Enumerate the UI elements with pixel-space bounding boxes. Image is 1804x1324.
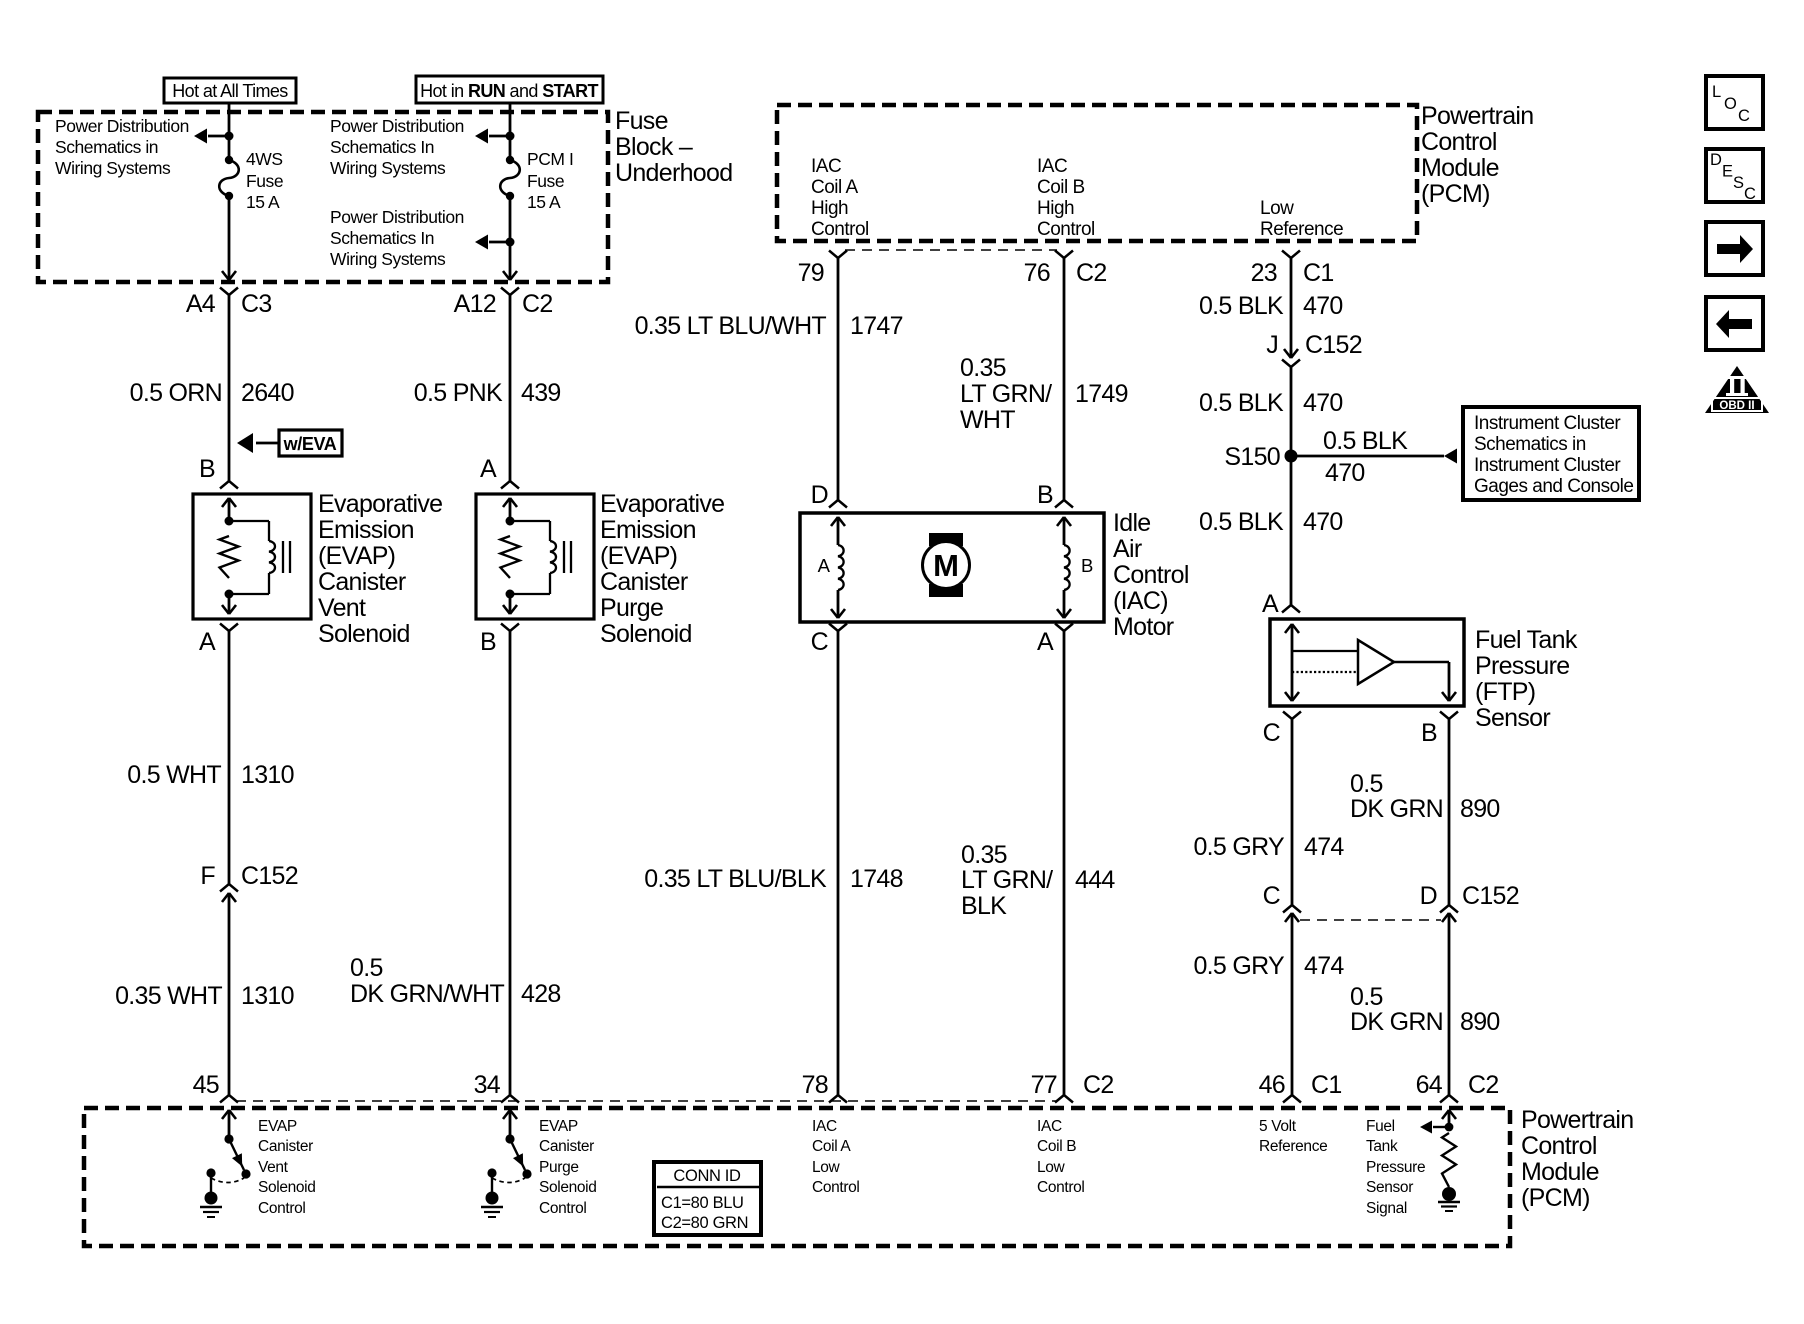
- svg-text:(EVAP): (EVAP): [600, 542, 677, 570]
- svg-text:0.5: 0.5: [1350, 770, 1383, 798]
- svg-text:F: F: [200, 862, 215, 890]
- svg-text:0.5 ORN: 0.5 ORN: [130, 379, 222, 407]
- svg-text:Instrument Cluster: Instrument Cluster: [1474, 413, 1621, 434]
- svg-text:79: 79: [798, 259, 824, 287]
- connector fork pin 23: [1282, 251, 1300, 259]
- label: 0.5 BLK | 470 (first): [1199, 292, 1343, 320]
- connector fork pin 79: [829, 251, 847, 259]
- wire: 0.35 LT GRN/WHT 1749 segment: [1063, 258, 1066, 500]
- svg-text:34: 34: [474, 1071, 501, 1099]
- svg-text:Hot at All Times: Hot at All Times: [172, 81, 288, 101]
- label: IAC Coil A Low Control: [812, 1118, 860, 1196]
- svg-text:IAC: IAC: [812, 1118, 837, 1135]
- off-page arrow to Power Distribution (upper, PCM I fuse): [475, 129, 515, 144]
- svg-text:A4: A4: [186, 290, 216, 318]
- label: 64 | C2: [1416, 1071, 1499, 1099]
- label: A (EVAP purge pin A): [480, 455, 497, 483]
- label: 5 Volt Reference: [1259, 1118, 1327, 1155]
- svg-text:Pressure: Pressure: [1475, 652, 1569, 680]
- svg-text:Fuel Tank: Fuel Tank: [1475, 626, 1578, 654]
- connector chevron FTP pin A: [1282, 605, 1300, 613]
- CONN ID table box: [654, 1162, 761, 1235]
- svg-text:Solenoid: Solenoid: [318, 620, 410, 648]
- w/EVA tag box with arrow: [237, 430, 342, 456]
- svg-text:OBD II: OBD II: [1719, 400, 1754, 412]
- wire: 0.5 DK GRN 890 segment (C152 to pin 64): [1448, 921, 1451, 1095]
- svg-text:0.35 LT BLU/BLK: 0.35 LT BLU/BLK: [644, 865, 827, 893]
- svg-text:439: 439: [521, 379, 561, 407]
- svg-text:Fuse: Fuse: [527, 171, 564, 191]
- svg-text:A12: A12: [454, 290, 496, 318]
- svg-text:Air: Air: [1113, 535, 1142, 563]
- svg-text:High: High: [1037, 198, 1074, 219]
- svg-text:Canister: Canister: [258, 1138, 313, 1155]
- svg-text:M: M: [933, 548, 959, 583]
- label: IAC Coil A High Control: [811, 156, 869, 240]
- svg-text:Schematics In: Schematics In: [330, 228, 434, 248]
- svg-text:B: B: [1081, 555, 1093, 576]
- label: 0.35 LT GRN/ BLK | 444: [961, 841, 1115, 920]
- svg-text:0.5 GRY: 0.5 GRY: [1193, 833, 1285, 861]
- svg-text:IAC: IAC: [1037, 1118, 1062, 1135]
- svg-text:EVAP: EVAP: [539, 1118, 578, 1135]
- svg-text:C2: C2: [1076, 259, 1107, 287]
- label: Powertrain Control Module (PCM) bottom right: [1521, 1106, 1634, 1212]
- wire: 0.35 LT BLU/BLK 1748 segment: [837, 631, 840, 1095]
- svg-text:(PCM): (PCM): [1521, 1184, 1590, 1212]
- svg-text:Control: Control: [812, 1179, 860, 1196]
- wire: 0.5 BLK 470 branch to instrument cluster: [1291, 427, 1457, 487]
- PCM dashed outline box (bottom): [84, 1108, 1510, 1246]
- svg-text:0.5 BLK: 0.5 BLK: [1199, 508, 1284, 536]
- icon: OBD II triangle: [1705, 366, 1769, 413]
- svg-text:DK GRN: DK GRN: [1350, 1008, 1443, 1036]
- svg-text:0.5 WHT: 0.5 WHT: [127, 761, 221, 789]
- power label box: Hot at All Times: [164, 78, 296, 103]
- EVAP purge solenoid coil branch: [510, 521, 556, 594]
- label: B (IAC pin B): [1037, 481, 1053, 509]
- svg-text:444: 444: [1075, 866, 1115, 894]
- svg-text:S: S: [1733, 174, 1744, 192]
- svg-text:CONN ID: CONN ID: [673, 1167, 741, 1185]
- label: 0.5 BLK | 470 (second): [1199, 389, 1343, 417]
- label: 79: [798, 259, 824, 287]
- svg-text:78: 78: [802, 1071, 828, 1099]
- svg-text:Purge: Purge: [539, 1159, 579, 1176]
- svg-text:Low: Low: [1260, 198, 1294, 219]
- svg-text:Low: Low: [1037, 1159, 1066, 1176]
- PCM internal FTP signal pull-up and ground (pin 64): [1420, 1110, 1460, 1211]
- svg-text:(EVAP): (EVAP): [318, 542, 395, 570]
- connector chevron at EVAP purge pin A: [501, 481, 519, 489]
- connector fork pin 45: [220, 1095, 238, 1103]
- label: 34: [474, 1071, 501, 1099]
- svg-text:EVAP: EVAP: [258, 1118, 297, 1135]
- svg-text:1749: 1749: [1075, 380, 1128, 408]
- label: A (IAC pin A): [1037, 628, 1054, 656]
- fuse F1 4WS 15A symbol: [219, 156, 239, 200]
- EVAP canister vent solenoid box: [193, 494, 311, 619]
- svg-text:PCM I: PCM I: [527, 149, 573, 169]
- svg-text:Module: Module: [1421, 154, 1499, 182]
- svg-text:23: 23: [1251, 259, 1277, 287]
- wire: battery feed from Hot at All Times to 4WS fuse: [228, 103, 231, 160]
- svg-text:C2=80 GRN: C2=80 GRN: [661, 1214, 748, 1232]
- label: IAC Coil B High Control: [1037, 156, 1095, 240]
- svg-text:C2: C2: [522, 290, 553, 318]
- svg-text:Solenoid: Solenoid: [600, 620, 692, 648]
- icon: LOC box: [1706, 76, 1763, 129]
- svg-text:Control: Control: [1521, 1132, 1597, 1160]
- label: EVAP Canister Vent Solenoid Control: [258, 1118, 316, 1217]
- svg-text:Power Distribution: Power Distribution: [330, 207, 464, 227]
- label: 0.5 DK GRN/WHT | 428: [350, 954, 561, 1008]
- label: 0.35 WHT | 1310: [115, 982, 294, 1010]
- EVAP canister purge solenoid box: [476, 494, 594, 619]
- label: B (EVAP vent pin B): [199, 455, 215, 483]
- off-page arrow to Power Distribution (left of 4WS fuse): [194, 129, 234, 144]
- svg-text:A: A: [480, 455, 497, 483]
- svg-text:470: 470: [1325, 459, 1365, 487]
- svg-text:474: 474: [1304, 833, 1344, 861]
- FTP output line to pin B: [1394, 662, 1456, 701]
- label: 4WS Fuse 15 A: [246, 149, 283, 212]
- svg-text:B: B: [1421, 719, 1437, 747]
- svg-text:Schematics in: Schematics in: [55, 137, 158, 157]
- EVAP purge solenoid resistor: [501, 536, 520, 578]
- svg-text:470: 470: [1303, 389, 1343, 417]
- wire: 0.5 ORN 2640 segment: [228, 295, 231, 481]
- label: J | C152: [1266, 331, 1362, 359]
- connector fork pin 64: [1440, 1095, 1458, 1103]
- svg-text:0.5 BLK: 0.5 BLK: [1199, 389, 1284, 417]
- power label box: Hot in RUN and START: [416, 76, 603, 103]
- connector A4 C3 fork: [220, 288, 238, 296]
- svg-text:Control: Control: [1113, 561, 1189, 589]
- label: B (IAC internal coil B): [1081, 555, 1093, 576]
- svg-text:BLK: BLK: [961, 892, 1007, 920]
- svg-text:D: D: [811, 481, 828, 509]
- label: Low Reference: [1260, 198, 1343, 240]
- svg-text:D: D: [1710, 151, 1722, 169]
- connector chevron at EVAP vent pin B: [220, 481, 238, 489]
- wire: 0.35 LT BLU/WHT 1747 segment: [837, 258, 840, 500]
- wire: 0.5 BLK 470 segment (pin 23 to C152 J): [1290, 258, 1293, 358]
- wire: 0.5 GRY 474 segment (FTP C to C152): [1291, 719, 1294, 905]
- label: Fuel Tank Pressure (FTP) Sensor: [1475, 626, 1578, 732]
- connector fork pin 76: [1055, 251, 1073, 259]
- svg-text:Tank: Tank: [1366, 1138, 1398, 1155]
- label: A (EVAP vent pin A): [199, 628, 216, 656]
- svg-text:428: 428: [521, 980, 561, 1008]
- svg-text:J: J: [1266, 331, 1278, 359]
- svg-text:IAC: IAC: [811, 156, 841, 177]
- svg-text:Power Distribution: Power Distribution: [55, 116, 189, 136]
- arrow into fuse block box bottom (W1): [222, 271, 236, 280]
- in-line connector C152 at C: [1283, 905, 1301, 922]
- svg-text:Module: Module: [1521, 1158, 1599, 1186]
- label: 0.5 DK GRN | 890 (upper): [1350, 770, 1500, 823]
- svg-text:Gages and Console: Gages and Console: [1474, 476, 1633, 497]
- svg-text:Underhood: Underhood: [615, 159, 732, 187]
- connector fork at EVAP vent pin A: [220, 624, 238, 632]
- arrow into fuse block box bottom (W2): [503, 271, 517, 280]
- svg-text:Powertrain: Powertrain: [1421, 102, 1534, 130]
- label: Fuse Block - Underhood: [615, 107, 732, 187]
- svg-text:64: 64: [1416, 1071, 1443, 1099]
- label: B (FTP pin B): [1421, 719, 1437, 747]
- svg-text:Wiring Systems: Wiring Systems: [330, 249, 446, 269]
- label: PCM I Fuse 15 A: [527, 149, 573, 212]
- svg-text:Coil B: Coil B: [1037, 1138, 1076, 1155]
- wire: 0.5 BLK 470 segment (S150 to FTP): [1290, 456, 1293, 605]
- in-line connector C152 at J: [1282, 349, 1300, 367]
- svg-text:Evaporative: Evaporative: [600, 490, 724, 518]
- in-line connector C152 at F: [220, 884, 238, 902]
- connector fork IAC pin A: [1055, 624, 1073, 632]
- svg-text:474: 474: [1304, 952, 1344, 980]
- svg-text:0.35: 0.35: [960, 354, 1006, 382]
- svg-text:Coil B: Coil B: [1037, 177, 1085, 198]
- svg-text:C2: C2: [1083, 1071, 1114, 1099]
- svg-text:L: L: [1712, 83, 1721, 101]
- connector chevron IAC pin B: [1055, 500, 1073, 508]
- label: 0.5 GRY | 474 (upper): [1193, 833, 1344, 861]
- label: B (EVAP purge pin B): [480, 628, 496, 656]
- svg-text:45: 45: [193, 1071, 219, 1099]
- icon: DESC box: [1706, 149, 1763, 203]
- svg-text:0.35 LT BLU/WHT: 0.35 LT BLU/WHT: [635, 312, 827, 340]
- svg-text:C1: C1: [1311, 1071, 1342, 1099]
- fuse block - underhood dashed outline box: [38, 112, 608, 282]
- in-line connector C152 at D: [1440, 905, 1458, 922]
- EVAP purge solenoid internal wire with arrows: [503, 498, 517, 614]
- svg-text:Reference: Reference: [1260, 219, 1343, 240]
- label: 77 | C2: [1031, 1071, 1114, 1099]
- svg-text:5 Volt: 5 Volt: [1259, 1118, 1297, 1135]
- svg-text:IAC: IAC: [1037, 156, 1067, 177]
- EVAP vent solenoid coil branch: [229, 521, 275, 594]
- FTP internal left wire with arrows: [1285, 624, 1299, 701]
- svg-text:890: 890: [1460, 795, 1500, 823]
- svg-text:C: C: [1263, 882, 1281, 910]
- wire: 0.5 WHT 1310 segment: [228, 631, 231, 884]
- connector fork FTP pin C: [1283, 712, 1301, 720]
- svg-text:B: B: [1037, 481, 1053, 509]
- svg-text:C2: C2: [1468, 1071, 1499, 1099]
- label: C (IAC pin C): [811, 628, 829, 656]
- svg-text:S150: S150: [1224, 443, 1280, 471]
- label: Evaporative Emission (EVAP) Canister Vent Solenoid: [318, 490, 442, 648]
- C2 connector fine dashed line (top): [845, 249, 1057, 251]
- svg-text:Purge: Purge: [600, 594, 663, 622]
- IAC motor symbol M with brushes: [923, 533, 970, 597]
- FTP internal input line to amplifier: [1292, 650, 1358, 652]
- label: F | C152: [200, 862, 298, 890]
- svg-text:470: 470: [1303, 508, 1343, 536]
- label: IAC Coil B Low Control: [1037, 1118, 1085, 1196]
- svg-text:C1: C1: [1303, 259, 1334, 287]
- svg-text:Sensor: Sensor: [1366, 1179, 1413, 1196]
- label: 46 | C1: [1259, 1071, 1342, 1099]
- svg-text:C152: C152: [241, 862, 298, 890]
- svg-text:1310: 1310: [241, 982, 294, 1010]
- svg-text:High: High: [811, 198, 848, 219]
- svg-text:A: A: [1037, 628, 1054, 656]
- svg-text:(IAC): (IAC): [1113, 587, 1168, 615]
- svg-text:0.35: 0.35: [961, 841, 1007, 869]
- label: C | C152 crossing: [1263, 882, 1281, 910]
- splice S150: [1224, 443, 1297, 471]
- svg-text:Control: Control: [1421, 128, 1497, 156]
- svg-text:Canister: Canister: [600, 568, 688, 596]
- wire: 0.35 LT GRN/BLK 444 segment: [1063, 631, 1066, 1095]
- svg-text:Idle: Idle: [1113, 509, 1151, 537]
- connector fork pin 34: [501, 1095, 519, 1103]
- label: A (FTP pin A): [1262, 590, 1279, 618]
- svg-text:0.5 BLK: 0.5 BLK: [1323, 427, 1408, 455]
- svg-text:B: B: [480, 628, 496, 656]
- svg-text:Solenoid: Solenoid: [539, 1179, 597, 1196]
- svg-text:Control: Control: [811, 219, 869, 240]
- wire: PCM I fuse to connector A12: [509, 196, 512, 272]
- icon: forward arrow box: [1706, 222, 1763, 275]
- C152 fine dashed line (C to D): [1300, 919, 1441, 921]
- svg-text:Hot in RUN and START: Hot in RUN and START: [420, 81, 598, 101]
- connector chevron IAC pin D: [829, 500, 847, 508]
- IAC coil A winding with arrows: [831, 517, 845, 618]
- PCM driver switch to ground for EVAP purge (pin 34): [481, 1110, 532, 1217]
- label: 78: [802, 1071, 828, 1099]
- label: 45: [193, 1071, 219, 1099]
- label: 0.35 LT BLU/WHT | 1747: [635, 312, 903, 340]
- svg-text:Signal: Signal: [1366, 1200, 1407, 1217]
- svg-text:Block –: Block –: [615, 133, 693, 161]
- svg-text:Instrument Cluster: Instrument Cluster: [1474, 455, 1621, 476]
- svg-text:0.5 GRY: 0.5 GRY: [1193, 952, 1285, 980]
- svg-text:Motor: Motor: [1113, 613, 1174, 641]
- svg-text:C: C: [811, 628, 829, 656]
- svg-text:Fuse: Fuse: [615, 107, 668, 135]
- svg-text:0.5 BLK: 0.5 BLK: [1199, 292, 1284, 320]
- svg-text:C: C: [1263, 719, 1281, 747]
- svg-text:(FTP): (FTP): [1475, 678, 1535, 706]
- svg-text:C152: C152: [1305, 331, 1362, 359]
- svg-text:Power Distribution: Power Distribution: [330, 116, 464, 136]
- EVAP purge solenoid core lines: [564, 541, 571, 573]
- svg-text:46: 46: [1259, 1071, 1285, 1099]
- FTP internal dotted reference line: [1292, 671, 1358, 673]
- PCM driver switch to ground for EVAP vent (pin 45): [200, 1110, 251, 1217]
- label: Power Distribution Schematics In Wiring Systems (upper middle): [330, 116, 464, 178]
- Fuel Tank Pressure sensor box: [1270, 619, 1464, 706]
- svg-text:C1=80 BLU: C1=80 BLU: [661, 1194, 744, 1212]
- svg-text:WHT: WHT: [960, 406, 1015, 434]
- label: Fuel Tank Pressure Sensor Signal: [1366, 1118, 1425, 1217]
- icon: back arrow box: [1706, 297, 1763, 350]
- svg-text:O: O: [1724, 95, 1737, 113]
- label: D (IAC pin D): [811, 481, 828, 509]
- svg-text:C152: C152: [1462, 882, 1519, 910]
- svg-text:Emission: Emission: [600, 516, 696, 544]
- svg-text:Low: Low: [812, 1159, 841, 1176]
- wire: 0.5 PNK 439 segment: [509, 295, 512, 481]
- IAC coil B winding with arrows: [1057, 517, 1071, 618]
- label: 0.5 GRY | 474 (lower): [1193, 952, 1344, 980]
- wire: 0.5 DK GRN 890 segment (FTP B to C152): [1448, 719, 1451, 905]
- label: 0.35 LT GRN/ WHT | 1749: [960, 354, 1128, 434]
- wire: ignition feed from Hot in RUN and START to PCM I fuse: [509, 103, 512, 160]
- svg-text:Wiring Systems: Wiring Systems: [330, 158, 446, 178]
- svg-text:A: A: [818, 555, 831, 576]
- svg-text:C3: C3: [241, 290, 272, 318]
- svg-text:Pressure: Pressure: [1366, 1159, 1425, 1176]
- connector fork pin 46: [1283, 1095, 1301, 1103]
- svg-text:15 A: 15 A: [527, 192, 561, 212]
- fuse F2 PCM I 15A symbol: [500, 156, 520, 200]
- svg-text:Emission: Emission: [318, 516, 414, 544]
- label: 0.5 ORN | 2640: [130, 379, 294, 407]
- wire: 0.5 BLK 470 segment (J to S150): [1290, 367, 1293, 456]
- svg-text:Vent: Vent: [258, 1159, 289, 1176]
- EVAP vent solenoid resistor: [220, 536, 239, 578]
- svg-text:Coil A: Coil A: [812, 1138, 851, 1155]
- svg-text:Solenoid: Solenoid: [258, 1179, 316, 1196]
- connector fork pin 78: [829, 1095, 847, 1103]
- svg-text:Canister: Canister: [539, 1138, 594, 1155]
- svg-text:D: D: [1420, 882, 1437, 910]
- wire: 4WS fuse to connector A4: [228, 196, 231, 272]
- svg-text:76: 76: [1024, 259, 1050, 287]
- svg-text:Wiring Systems: Wiring Systems: [55, 158, 171, 178]
- svg-text:Fuel: Fuel: [1366, 1118, 1395, 1135]
- svg-text:E: E: [1722, 163, 1733, 181]
- C2 connector fine dashed line (bottom): [236, 1100, 1057, 1102]
- svg-text:Coil A: Coil A: [811, 177, 858, 198]
- svg-text:Vent: Vent: [318, 594, 366, 622]
- label: 0.5 BLK | 470 (third): [1199, 508, 1343, 536]
- label: Power Distribution Schematics In Wiring Systems (lower middle): [330, 207, 464, 269]
- svg-text:Schematics In: Schematics In: [330, 137, 434, 157]
- svg-text:2640: 2640: [241, 379, 294, 407]
- svg-text:Evaporative: Evaporative: [318, 490, 442, 518]
- label: D | C152 crossing: [1420, 882, 1519, 910]
- svg-text:1747: 1747: [850, 312, 903, 340]
- label: 0.35 LT BLU/BLK | 1748: [644, 865, 903, 893]
- svg-text:C: C: [1738, 107, 1750, 125]
- svg-text:B: B: [199, 455, 215, 483]
- svg-text:A: A: [199, 628, 216, 656]
- svg-text:A: A: [1262, 590, 1279, 618]
- svg-text:Control: Control: [539, 1200, 587, 1217]
- svg-text:Fuse: Fuse: [246, 171, 283, 191]
- label: 76 | C2: [1024, 259, 1107, 287]
- label: Idle Air Control (IAC) Motor: [1113, 509, 1189, 641]
- svg-text:77: 77: [1031, 1071, 1057, 1099]
- svg-text:Powertrain: Powertrain: [1521, 1106, 1634, 1134]
- svg-text:1310: 1310: [241, 761, 294, 789]
- label: EVAP Canister Purge Solenoid Control: [539, 1118, 597, 1217]
- Idle Air Control motor box: [800, 513, 1104, 622]
- label: 0.5 WHT | 1310: [127, 761, 294, 789]
- svg-text:Schematics in: Schematics in: [1474, 434, 1586, 455]
- svg-text:1748: 1748: [850, 865, 903, 893]
- svg-text:15 A: 15 A: [246, 192, 280, 212]
- connector fork pin 77: [1055, 1095, 1073, 1103]
- svg-text:0.5 PNK: 0.5 PNK: [414, 379, 503, 407]
- svg-text:Canister: Canister: [318, 568, 406, 596]
- connector fork IAC pin C: [829, 624, 847, 632]
